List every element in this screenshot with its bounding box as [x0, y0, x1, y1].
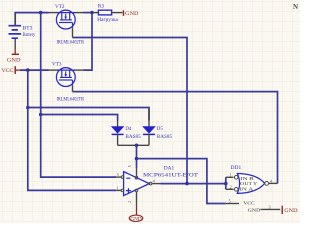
svg-text:DD1: DD1	[231, 165, 242, 171]
svg-text:3: 3	[117, 173, 119, 177]
wire: battery sense to D4 anode	[41, 115, 118, 121]
svg-text:IRLML6402TR: IRLML6402TR	[57, 39, 85, 45]
ground GND (DD1)	[282, 206, 297, 214]
wire: VT3 gate net to DD1 output	[73, 92, 278, 184]
svg-text:VCC: VCC	[243, 201, 254, 206]
wire: VT2 drain to R3 node	[84, 12, 94, 14]
wire: VT2 gate net to comparator output	[73, 38, 188, 184]
svg-text:Нагрузка: Нагрузка	[97, 17, 118, 23]
svg-text:IN B: IN B	[240, 176, 254, 181]
svg-text:1: 1	[230, 173, 232, 177]
svg-text:MCP6541UT-E/OT: MCP6541UT-E/OT	[143, 174, 198, 179]
junction: VCC rail tap	[26, 68, 30, 72]
junction: top rail battery tap	[39, 11, 43, 15]
svg-text:OUT Y: OUT Y	[240, 181, 258, 186]
svg-text:GND: GND	[125, 11, 138, 17]
svg-text:GND: GND	[284, 208, 297, 214]
junction: output to VT2 gate	[185, 182, 189, 186]
wire: diode-OR cathode bus	[118, 144, 149, 146]
power port VCC	[2, 66, 20, 74]
resistor R3	[94, 10, 123, 15]
svg-text:2: 2	[128, 201, 132, 203]
svg-text:2: 2	[230, 185, 232, 189]
svg-text:IRLML6402TR: IRLML6402TR	[57, 97, 85, 103]
svg-text:4: 4	[270, 180, 272, 184]
wire: battery down to comparator IN-	[41, 13, 117, 178]
svg-text:4: 4	[153, 180, 155, 184]
junction: cathode bus tap	[135, 144, 139, 148]
wire: VCC down to comparator IN+	[28, 70, 116, 190]
wire: VT3 drain up to R3 node	[84, 13, 93, 71]
wire: VDD net over to DD1 VCC pin	[137, 159, 226, 204]
battery BT3	[9, 14, 22, 50]
ground GND (load)	[124, 10, 139, 17]
svg-text:BT3: BT3	[23, 25, 33, 31]
wire: VCC sense to D5 anode	[28, 108, 149, 121]
junction: DD1 input split	[224, 182, 228, 186]
svg-text:BAS85: BAS85	[157, 134, 173, 140]
op-amp U DA1	[116, 168, 160, 206]
svg-text:D4: D4	[125, 126, 131, 132]
wire: DA1 output net	[161, 183, 226, 185]
svg-text:3: 3	[269, 206, 271, 210]
logic gate DD1	[226, 174, 281, 210]
svg-text:VCC: VCC	[2, 68, 14, 74]
svg-text:GND: GND	[130, 217, 142, 222]
svg-text:N: N	[293, 3, 298, 11]
svg-text:GND: GND	[7, 58, 21, 64]
wire: VCC rail to VT3	[20, 69, 49, 71]
svg-text:DA1: DA1	[164, 165, 175, 171]
transistor VT2	[49, 10, 84, 37]
svg-text:VT2: VT2	[55, 4, 65, 10]
transistor VT3	[49, 68, 84, 92]
svg-text:BAS85: BAS85	[125, 134, 141, 140]
junction: VDD net split	[135, 157, 139, 161]
svg-text:1: 1	[117, 187, 119, 191]
junction: battery sense tap	[39, 113, 43, 117]
junction: VT2/VT3 drains and R3	[90, 11, 94, 15]
svg-text:IN A: IN A	[240, 187, 255, 192]
svg-text:D5: D5	[157, 126, 163, 132]
wire: top rail battery+ to VT2	[15, 13, 48, 26]
svg-text:GND: GND	[248, 207, 261, 212]
ground GND (DA1, circle style)	[129, 206, 143, 223]
diode D5	[142, 108, 156, 146]
wire: VDD net down to DA1 pin 5	[136, 145, 138, 168]
junction: VCC sense tap	[26, 106, 30, 110]
svg-text:Battery: Battery	[23, 32, 36, 38]
svg-text:5: 5	[229, 199, 231, 203]
ground GND (battery)	[7, 50, 21, 64]
svg-text:VT3: VT3	[52, 61, 62, 67]
wire: DD1 input split vertical	[225, 177, 227, 189]
svg-text:5: 5	[128, 165, 132, 167]
diode D4	[111, 121, 125, 146]
svg-text:R3: R3	[98, 3, 104, 9]
